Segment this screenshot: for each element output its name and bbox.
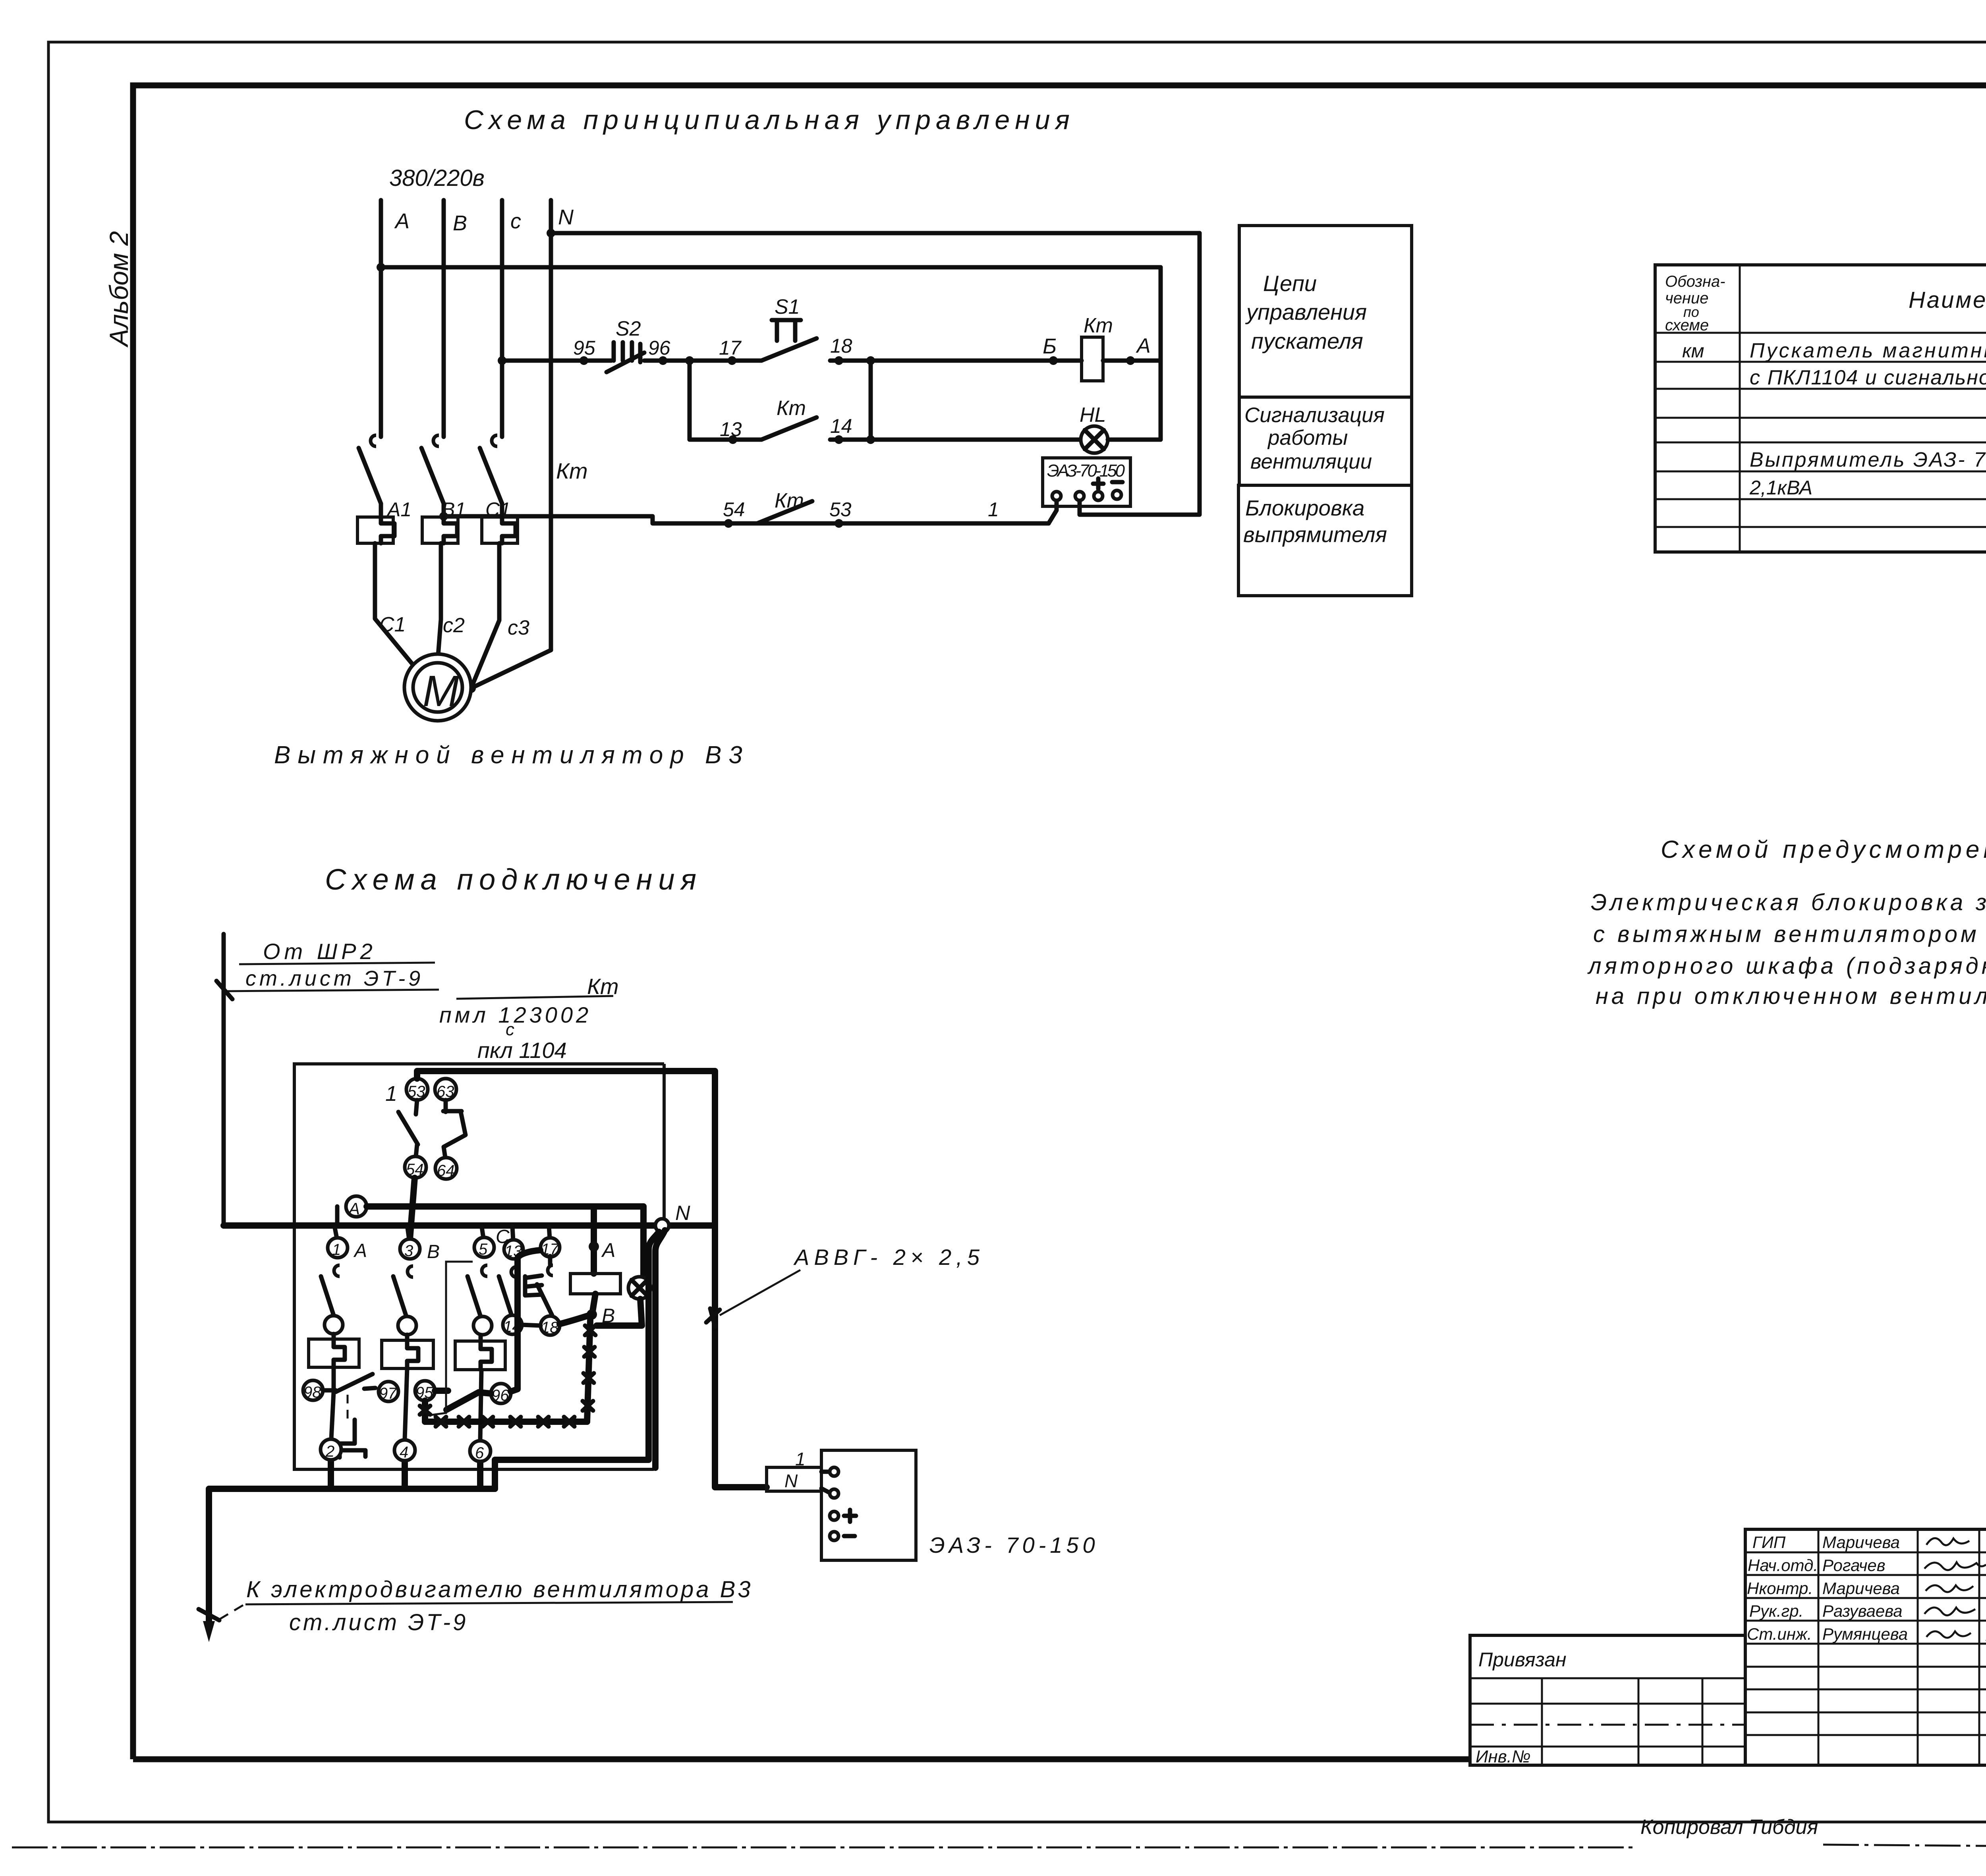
svg-text:Сигнализация: Сигнализация bbox=[1244, 403, 1385, 427]
svg-text:пкл 1104: пкл 1104 bbox=[477, 1038, 567, 1063]
svg-text:К электродвигателю вентилятор: К электродвигателю вентилятора В3 bbox=[246, 1577, 753, 1602]
contact blade 17 bbox=[537, 1256, 552, 1315]
main supply bus bbox=[224, 1222, 714, 1229]
cable core upper bbox=[495, 1232, 659, 1489]
node A right bbox=[1126, 356, 1135, 365]
wire coil to node B bbox=[592, 1294, 595, 1314]
terminal 95 bbox=[415, 1381, 435, 1401]
svg-text:Кт: Кт bbox=[1084, 314, 1113, 337]
contact hook A bbox=[334, 1265, 340, 1276]
thermal element B bbox=[382, 1335, 433, 1368]
thermal contact S2 bbox=[607, 317, 644, 372]
svg-text:Ст.инж.: Ст.инж. bbox=[1747, 1625, 1812, 1643]
SECTION: title block bbox=[1745, 1529, 1986, 1768]
signature squiggles bbox=[1926, 1538, 1969, 1545]
node 17 bbox=[728, 356, 736, 365]
main contact KM phase C bbox=[480, 435, 502, 504]
svg-text:95: 95 bbox=[573, 337, 595, 359]
svg-text:НL: НL bbox=[1080, 403, 1106, 427]
svg-text:Выпрямитель ЭАЗ- 70-150; 22: Выпрямитель ЭАЗ- 70-150; 220В bbox=[1750, 448, 1986, 471]
svg-text:Блокировка: Блокировка bbox=[1245, 496, 1364, 520]
function box: starter control circuits bbox=[1239, 226, 1412, 397]
wire rung1 mid bbox=[644, 359, 761, 363]
parts table grid bbox=[1655, 265, 1986, 552]
rectifier unit EAZ-70-150 bbox=[1043, 458, 1130, 506]
svg-text:Маричева: Маричева bbox=[1822, 1579, 1900, 1598]
rectifier EAZ-70-150 connection box bbox=[821, 1450, 916, 1560]
wire lamp return vertical bbox=[1159, 267, 1163, 440]
contact blade C bbox=[468, 1276, 480, 1315]
aux contact circle A bbox=[325, 1316, 343, 1334]
contact blade B bbox=[393, 1276, 406, 1315]
svg-text:с: с bbox=[510, 209, 521, 233]
phase bus B bbox=[442, 200, 446, 437]
svg-text:380/220в: 380/220в bbox=[389, 165, 485, 191]
terminal 53 bbox=[406, 1079, 428, 1100]
svg-text:В: В bbox=[427, 1241, 440, 1262]
feeder caption К электродвигателю вентилятора В3 bbox=[214, 1577, 753, 1635]
svg-text:Схема подключения: Схема подключения bbox=[325, 863, 702, 896]
svg-text:А: А bbox=[353, 1240, 367, 1261]
wire A row bbox=[367, 1203, 643, 1210]
wire coil to A node bbox=[1103, 359, 1161, 363]
svg-text:14: 14 bbox=[830, 415, 852, 437]
svg-text:Схема принципиальная управле: Схема принципиальная управления bbox=[464, 105, 1075, 135]
terminal 17 bbox=[541, 1226, 560, 1258]
svg-text:N: N bbox=[558, 205, 574, 229]
svg-text:От ШР2: От ШР2 bbox=[263, 939, 377, 964]
cable label АВВГ-2х2,5 bbox=[706, 1245, 984, 1326]
thermal element A bbox=[309, 1334, 359, 1367]
svg-text:Кт: Кт bbox=[775, 489, 804, 512]
wire N lead to motor node bbox=[471, 650, 551, 688]
svg-text:работы: работы bbox=[1267, 426, 1348, 450]
svg-text:Б: Б bbox=[1043, 334, 1057, 358]
aux contact 63-64 bbox=[443, 1100, 466, 1158]
Привязан row line bbox=[1470, 1677, 1745, 1679]
node 53 bbox=[835, 519, 843, 528]
contactor coil KM bbox=[1082, 314, 1113, 381]
node Б bbox=[1049, 356, 1058, 365]
phase bus A bbox=[379, 200, 383, 437]
svg-text:с3: с3 bbox=[508, 616, 529, 639]
svg-text:на при отключенном вентилят: на при отключенном вентиляторе). bbox=[1596, 983, 1986, 1009]
svg-text:Вытяжной вентилятор В3: Вытяжной вентилятор В3 bbox=[274, 741, 750, 769]
wire link rung1-rung2 bbox=[869, 361, 873, 440]
svg-text:2,1кВА: 2,1кВА bbox=[1749, 477, 1812, 499]
svg-text:с вытяжным вентилятором отсо: с вытяжным вентилятором отсоса воздуха и… bbox=[1593, 921, 1986, 947]
wire from B to rung3 bbox=[444, 516, 1049, 523]
main contact KM phase B bbox=[421, 435, 444, 504]
svg-text:6: 6 bbox=[475, 1444, 484, 1462]
link 14-18 bbox=[522, 1325, 541, 1326]
wire N horizontal run bbox=[551, 231, 1200, 235]
marked wire horizontal bbox=[425, 1419, 587, 1425]
terminal 3 bbox=[400, 1228, 440, 1262]
svg-text:Обозна-: Обозна- bbox=[1665, 273, 1725, 290]
svg-text:N: N bbox=[675, 1202, 690, 1225]
svg-text:Инв.№: Инв.№ bbox=[1476, 1747, 1531, 1766]
svg-text:В: В bbox=[453, 211, 467, 235]
svg-text:64: 64 bbox=[437, 1162, 455, 1179]
svg-text:Кт: Кт bbox=[587, 974, 619, 999]
starter designation КМ / ПМЛ 123002 с ПКЛ 1104 bbox=[439, 974, 619, 1063]
svg-text:96: 96 bbox=[648, 337, 670, 359]
wire 18 to node B bbox=[560, 1314, 592, 1324]
terminal 5 bbox=[474, 1226, 510, 1258]
wire box1 to terminal 2 bbox=[331, 1367, 334, 1439]
main contact KM phase A bbox=[359, 435, 381, 504]
node 95 bbox=[580, 356, 588, 365]
svg-text:1: 1 bbox=[385, 1082, 397, 1106]
wire 96 riser to 17 bbox=[511, 1250, 540, 1392]
svg-text:98: 98 bbox=[303, 1384, 321, 1401]
attachment grid columns bbox=[1542, 1678, 1702, 1765]
wire B contact to relay bbox=[442, 504, 446, 517]
svg-text:97: 97 bbox=[379, 1385, 397, 1402]
contact hook B bbox=[408, 1266, 413, 1277]
svg-text:А: А bbox=[1136, 334, 1151, 357]
signal lamp HL bbox=[1080, 403, 1108, 453]
svg-text:ст.лист ЭТ-9: ст.лист ЭТ-9 bbox=[289, 1610, 468, 1635]
marked wire up to B bbox=[587, 1320, 590, 1422]
node motor terminal bbox=[466, 683, 476, 693]
node 54 bbox=[724, 519, 733, 528]
terminal 1 bbox=[328, 1228, 367, 1261]
wire branch to coil bbox=[591, 1206, 597, 1274]
svg-text:А: А bbox=[601, 1239, 615, 1261]
wire rung1 left bbox=[502, 359, 611, 363]
thermal relay B1 bbox=[422, 498, 466, 543]
svg-text:96: 96 bbox=[491, 1387, 509, 1404]
pushbutton S1 bbox=[761, 295, 817, 361]
attachment grid rows bbox=[1470, 1704, 1745, 1747]
svg-text:Румянцева: Румянцева bbox=[1822, 1625, 1908, 1643]
contact hook 13 bbox=[511, 1267, 516, 1277]
svg-text:Пускатель магнитный ПМЛ123002;: Пускатель магнитный ПМЛ123002; 380В bbox=[1750, 339, 1986, 362]
svg-text:54: 54 bbox=[723, 498, 745, 521]
cable core lower bbox=[655, 1230, 665, 1468]
svg-text:Маричева: Маричева bbox=[1822, 1533, 1900, 1552]
thermal relay A1 bbox=[357, 498, 411, 543]
motor feeder run bbox=[209, 1489, 495, 1625]
wire C3 lead to motor bbox=[471, 543, 499, 688]
wire box2 to terminal 4 bbox=[405, 1368, 407, 1439]
svg-text:ляторного шкафа (подзарядка: ляторного шкафа (подзарядка аккумуляторо… bbox=[1587, 953, 1986, 979]
supply wire from ШР2 bbox=[222, 934, 226, 1226]
wire lamp return to B bbox=[597, 1299, 642, 1326]
svg-text:М: М bbox=[423, 667, 459, 716]
svg-text:пускателя: пускателя bbox=[1251, 328, 1363, 353]
title block outline bbox=[1745, 1529, 1986, 1765]
aux contact circle B bbox=[398, 1316, 416, 1335]
marked wire from 95 down bbox=[422, 1401, 428, 1422]
phase bus C bbox=[500, 200, 504, 437]
svg-text:управления: управления bbox=[1245, 299, 1367, 324]
node B in box bbox=[587, 1309, 597, 1320]
drop from terminal 2 bbox=[328, 1460, 334, 1489]
svg-text:17: 17 bbox=[719, 337, 742, 359]
contact 95-96 bbox=[435, 1391, 491, 1410]
node 96 bbox=[659, 356, 667, 365]
wire rectifier return vertical bbox=[1080, 233, 1200, 515]
svg-text:53: 53 bbox=[408, 1083, 425, 1100]
terminal 2 bbox=[321, 1439, 341, 1460]
crimp marks x bbox=[420, 1326, 595, 1426]
wire box3 to terminal 6 bbox=[480, 1370, 481, 1440]
signature grid columns bbox=[1818, 1529, 1986, 1765]
svg-text:ЭАЗ- 70-150: ЭАЗ- 70-150 bbox=[929, 1532, 1099, 1558]
svg-text:Наименование: Наименование bbox=[1909, 287, 1986, 313]
node A in box bbox=[589, 1241, 599, 1252]
svg-text:S2: S2 bbox=[616, 317, 641, 340]
drop from terminal 6 bbox=[477, 1461, 483, 1489]
aux contact KM rung2 bbox=[761, 417, 817, 440]
dash-dot row bbox=[1470, 1724, 1745, 1726]
svg-text:с: с bbox=[506, 1020, 514, 1039]
node C tap rung1 bbox=[498, 356, 506, 365]
node B tap bbox=[439, 512, 448, 521]
svg-text:Рук.гр.: Рук.гр. bbox=[1749, 1602, 1803, 1620]
svg-text:схеме: схеме bbox=[1665, 317, 1709, 334]
svg-text:км: км bbox=[1682, 341, 1704, 362]
svg-text:53: 53 bbox=[829, 498, 852, 521]
wire lamp to return bbox=[1108, 438, 1161, 442]
svg-text:Кт: Кт bbox=[777, 397, 806, 420]
terminal 97 bbox=[379, 1382, 398, 1402]
terminal 98 bbox=[303, 1380, 323, 1401]
svg-text:2: 2 bbox=[325, 1443, 334, 1460]
wire lamp drop bbox=[640, 1206, 647, 1276]
svg-text:ст.лист ЭТ-9: ст.лист ЭТ-9 bbox=[245, 967, 423, 990]
wire A contact to relay bbox=[379, 504, 383, 517]
aux contact KM rung3 bbox=[757, 501, 812, 523]
svg-text:Нконтр.: Нконтр. bbox=[1747, 1579, 1813, 1598]
phase A pickup circle bbox=[337, 1196, 367, 1226]
terminal 18 bbox=[541, 1316, 560, 1336]
svg-text:1: 1 bbox=[988, 498, 999, 521]
terminal 4 bbox=[394, 1440, 415, 1461]
svg-text:Копировал Тибдия: Копировал Тибдия bbox=[1640, 1816, 1818, 1839]
thermal element C bbox=[455, 1336, 505, 1370]
starter enclosure box bbox=[294, 1064, 664, 1469]
svg-text:13: 13 bbox=[720, 418, 742, 440]
terminal 96 bbox=[491, 1384, 511, 1404]
svg-text:пмл 123002: пмл 123002 bbox=[439, 1002, 591, 1027]
svg-text:1: 1 bbox=[332, 1241, 341, 1258]
svg-text:Привязан: Привязан bbox=[1478, 1648, 1567, 1671]
wire C1 lead to motor bbox=[375, 543, 414, 666]
contact blade 13 bbox=[499, 1276, 512, 1315]
neutral tap circle N bbox=[655, 1202, 690, 1232]
svg-text:Разуваева: Разуваева bbox=[1822, 1602, 1903, 1620]
function box: rectifier interlock bbox=[1238, 485, 1412, 596]
svg-text:1: 1 bbox=[795, 1449, 806, 1469]
wire 54 to terminal 3 bbox=[410, 1178, 415, 1239]
contact hook 17 bbox=[548, 1265, 553, 1276]
left attachment block bbox=[1470, 1635, 1745, 1766]
svg-text:ГИП: ГИП bbox=[1752, 1533, 1786, 1552]
svg-text:Кт: Кт bbox=[556, 458, 588, 483]
svg-text:выпрямителя: выпрямителя bbox=[1243, 522, 1387, 547]
svg-text:Схемой предусмотрено:: Схемой предусмотрено: bbox=[1661, 836, 1986, 863]
node junction 18 to rung2 bbox=[866, 356, 875, 365]
feeder label От ШР2 bbox=[216, 939, 439, 999]
svg-text:N: N bbox=[784, 1471, 798, 1491]
node A tap bbox=[377, 263, 385, 272]
node junction to rung2 bbox=[685, 356, 694, 365]
coil of KM (connection view) bbox=[570, 1274, 620, 1294]
node 14 bbox=[835, 435, 843, 444]
terminal 6 bbox=[470, 1441, 491, 1462]
node junction 14 bbox=[866, 435, 875, 444]
terminal 13 bbox=[504, 1226, 523, 1260]
svg-text:Нач.отд.: Нач.отд. bbox=[1748, 1556, 1818, 1575]
function box: ventilation signalling bbox=[1239, 397, 1412, 485]
contact blade A bbox=[321, 1276, 334, 1315]
feeder crossing tick bbox=[199, 1609, 219, 1620]
svg-text:С1: С1 bbox=[379, 613, 406, 636]
terminal 54 bbox=[405, 1156, 426, 1178]
SECTION: parts table bbox=[1655, 265, 1986, 552]
svg-text:Электрическая блокировка зар: Электрическая блокировка зарядного выпря… bbox=[1591, 890, 1986, 915]
wire conductor 1 to rectifier bbox=[417, 1071, 767, 1487]
terminal 64 bbox=[435, 1158, 457, 1179]
wire C contact to relay bbox=[500, 504, 504, 517]
wire C2 lead to motor bbox=[438, 543, 441, 655]
svg-text:3: 3 bbox=[404, 1242, 413, 1260]
wire rung2 from junction bbox=[690, 361, 761, 440]
svg-text:18: 18 bbox=[830, 335, 852, 357]
bypass wire col C bbox=[426, 1262, 473, 1416]
svg-text:вентиляции: вентиляции bbox=[1250, 450, 1372, 473]
svg-text:4: 4 bbox=[400, 1444, 408, 1461]
svg-text:5: 5 bbox=[479, 1241, 488, 1258]
bottom microfilm line bbox=[12, 1847, 1636, 1849]
svg-text:ЭАЗ-70-150: ЭАЗ-70-150 bbox=[1047, 461, 1125, 481]
jumper box N to rectifier bbox=[767, 1449, 821, 1491]
thermal relay C1 bbox=[482, 498, 518, 543]
svg-text:Альбом 2: Альбом 2 bbox=[104, 231, 133, 348]
wire rung1 right bbox=[830, 359, 1082, 363]
lamp HL (connection view) bbox=[628, 1277, 651, 1299]
mechanical link dashed bbox=[347, 1395, 349, 1419]
contact hook C bbox=[482, 1265, 487, 1276]
svg-text:S1: S1 bbox=[775, 295, 800, 318]
aux contact circle C bbox=[473, 1316, 492, 1335]
node 18 bbox=[835, 356, 843, 365]
neutral bus N bbox=[549, 200, 553, 650]
svg-text:Рогачев: Рогачев bbox=[1822, 1556, 1886, 1575]
wire A horizontal run bbox=[381, 265, 1161, 270]
node N tap bbox=[547, 229, 555, 237]
time mechanism symbol bbox=[525, 1276, 542, 1295]
terminal 14 bbox=[503, 1315, 522, 1336]
svg-text:с ПКЛ1104 и сигнальной лампой: с ПКЛ1104 и сигнальной лампой НL bbox=[1750, 366, 1986, 389]
node 13 bbox=[728, 435, 737, 444]
wire rung2 right bbox=[830, 438, 1081, 442]
svg-text:Цепи: Цепи bbox=[1263, 271, 1317, 296]
svg-text:А: А bbox=[394, 209, 410, 233]
svg-text:А: А bbox=[348, 1199, 360, 1218]
terminal 63 bbox=[435, 1079, 456, 1100]
svg-text:18: 18 bbox=[541, 1319, 559, 1336]
aux contact 53-54 bbox=[398, 1100, 418, 1156]
signature grid rows bbox=[1745, 1552, 1986, 1735]
svg-text:АВВГ- 2× 2,5: АВВГ- 2× 2,5 bbox=[793, 1245, 984, 1270]
wire rung3 to rectifier bbox=[1049, 498, 1057, 523]
motor M bbox=[404, 654, 471, 721]
contact 98-97 blade bbox=[323, 1374, 375, 1392]
feeder arrowhead bbox=[203, 1621, 215, 1642]
svg-text:с2: с2 bbox=[443, 614, 465, 637]
drop from terminal 4 bbox=[402, 1461, 408, 1489]
svg-text:63: 63 bbox=[437, 1083, 454, 1100]
release latch symbol bbox=[340, 1420, 365, 1457]
